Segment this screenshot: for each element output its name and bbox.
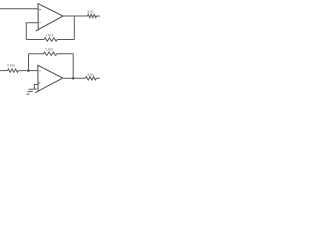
ground <box>27 89 37 94</box>
resistor R4 1k feedback of U2 <box>44 52 57 55</box>
wire U2 feedback row right segment <box>57 53 73 55</box>
svg-text:1 kΩ: 1 kΩ <box>45 32 53 37</box>
op-amp U1 <box>36 3 63 31</box>
svg-text:370: 370 <box>87 9 94 14</box>
node junction at U2 output <box>72 77 75 80</box>
wire U1 feedback row right segment <box>57 39 74 41</box>
wire feedback vertical to U1 output <box>73 16 75 40</box>
wire input row of lower circuit <box>0 70 8 72</box>
pin + of U2 <box>38 82 40 84</box>
wire U1 inverting input stub <box>26 23 38 40</box>
wire input to op-amp U1 non-inverting input <box>0 8 38 10</box>
op-amp U2 <box>35 65 63 93</box>
wire U2 non-inverting stub to ground <box>34 85 37 89</box>
svg-text:1 kΩ: 1 kΩ <box>7 62 15 67</box>
wire U1 output row <box>63 15 88 17</box>
wire U2 output to right edge <box>96 77 100 79</box>
resistor R3 1k input of U2 <box>8 69 19 72</box>
wire feedback vertical down to U2 output <box>72 54 74 79</box>
resistor R1 1k feedback of U1 <box>44 38 57 41</box>
wire U2 feedback row left segment <box>29 53 44 55</box>
wire junction up to feedback row of U2 <box>28 54 30 71</box>
wire U1 feedback row left segment <box>26 39 44 41</box>
resistor R2 370 output of U1 <box>88 14 97 17</box>
node junction at inverting input of U2 <box>27 69 30 72</box>
pin - of U1 <box>39 22 41 24</box>
svg-text:370: 370 <box>87 72 94 77</box>
wire from R3 to U2 inverting input <box>18 70 38 72</box>
svg-text:1 kΩ: 1 kΩ <box>45 47 53 52</box>
pin - of U2 <box>39 70 41 72</box>
pin + of U1 <box>39 9 41 11</box>
wire U2 output row <box>63 77 86 79</box>
resistor R5 370 output of U2 <box>86 77 97 80</box>
wire U1 output to right edge <box>97 15 101 17</box>
